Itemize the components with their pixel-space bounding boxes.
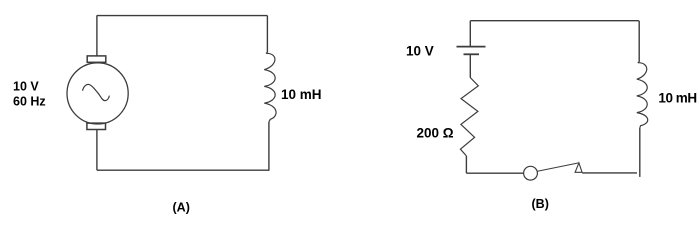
wire: circuit B left upper	[469, 21, 471, 46]
ac source V1	[67, 56, 128, 130]
wire: circuit B left lower	[465, 156, 467, 173]
wire: circuit B right upper	[638, 21, 640, 62]
inductor L1	[264, 53, 276, 122]
svg-text:10 mH: 10 mH	[281, 87, 322, 102]
wire: battery to resistor	[469, 54, 471, 77]
wire: circuit A left upper	[96, 16, 98, 56]
wire: circuit A right upper	[266, 16, 268, 53]
battery BT1	[457, 47, 486, 55]
svg-text:200 Ω: 200 Ω	[417, 125, 454, 140]
resistor R1	[460, 78, 478, 156]
svg-text:60 Hz: 60 Hz	[13, 95, 46, 109]
wire: circuit B right lower	[639, 128, 641, 177]
inductor L2	[637, 62, 648, 128]
svg-text:10 V: 10 V	[13, 80, 39, 94]
svg-text:(B): (B)	[532, 197, 549, 211]
switch S1	[524, 163, 583, 180]
svg-text:10 mH: 10 mH	[658, 90, 696, 105]
wire: circuit A top	[97, 15, 268, 17]
wire: circuit B bottom left	[466, 172, 523, 174]
wire: circuit A left lower	[96, 130, 98, 171]
wire: circuit B top	[470, 20, 639, 22]
svg-text:10 V: 10 V	[406, 44, 434, 59]
wire: circuit B bottom right	[582, 172, 637, 174]
svg-text:(A): (A)	[173, 201, 190, 215]
wire: circuit A bottom	[97, 169, 270, 171]
wire: circuit A right lower	[268, 122, 270, 170]
